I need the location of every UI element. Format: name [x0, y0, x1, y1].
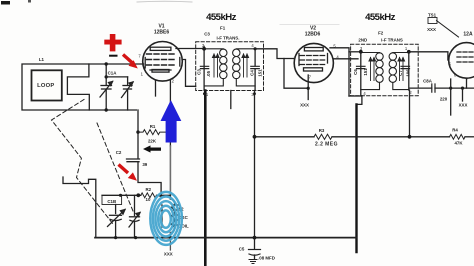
svg-text:I-F TRANS: I-F TRANS	[381, 38, 403, 43]
svg-text:R1: R1	[150, 124, 156, 129]
svg-text:R4: R4	[452, 128, 458, 133]
svg-text:XXX: XXX	[300, 103, 309, 108]
svg-text:C1A: C1A	[108, 71, 118, 76]
svg-text:F1: F1	[220, 26, 226, 31]
svg-text:XXX: XXX	[459, 103, 468, 108]
svg-text:12BE6: 12BE6	[154, 30, 170, 36]
svg-text:151: 151	[258, 69, 263, 77]
svg-text:.05: .05	[206, 70, 211, 77]
svg-text:C6: C6	[353, 69, 358, 75]
svg-text:C4: C4	[250, 70, 255, 76]
svg-text:I-F TRANS.: I-F TRANS.	[217, 36, 240, 41]
svg-text:220: 220	[440, 97, 448, 102]
svg-text:XXX: XXX	[427, 27, 436, 32]
svg-text:C3: C3	[204, 32, 210, 37]
svg-text:L1: L1	[39, 57, 45, 62]
svg-text:C7: C7	[398, 70, 403, 76]
svg-text:12A: 12A	[463, 32, 473, 38]
svg-text:455kHz: 455kHz	[365, 12, 396, 23]
svg-text:XXX: XXX	[164, 252, 173, 257]
svg-text:106: 106	[406, 69, 411, 77]
svg-text:12BD6: 12BD6	[305, 32, 321, 38]
svg-text:F2: F2	[378, 31, 384, 36]
svg-text:TS1: TS1	[428, 13, 437, 18]
svg-text:2ND: 2ND	[358, 38, 367, 43]
svg-text:R3: R3	[319, 128, 325, 133]
svg-text:.08 MFD: .08 MFD	[258, 256, 275, 261]
svg-text:151: 151	[363, 68, 368, 76]
svg-text:C3: C3	[196, 69, 201, 75]
svg-text:455kHz: 455kHz	[206, 12, 237, 23]
svg-text:39: 39	[142, 162, 147, 167]
svg-text:C5: C5	[239, 247, 245, 252]
svg-text:22K: 22K	[148, 139, 157, 144]
svg-text:C1B: C1B	[107, 199, 116, 204]
svg-text:10: 10	[146, 197, 151, 202]
svg-text:LOOP: LOOP	[37, 83, 54, 89]
svg-text:C8A: C8A	[423, 79, 433, 84]
svg-text:C2: C2	[116, 150, 122, 155]
svg-text:47K: 47K	[454, 141, 463, 146]
svg-text:2.2 MEG: 2.2 MEG	[315, 142, 338, 148]
svg-text:R2: R2	[145, 187, 151, 192]
